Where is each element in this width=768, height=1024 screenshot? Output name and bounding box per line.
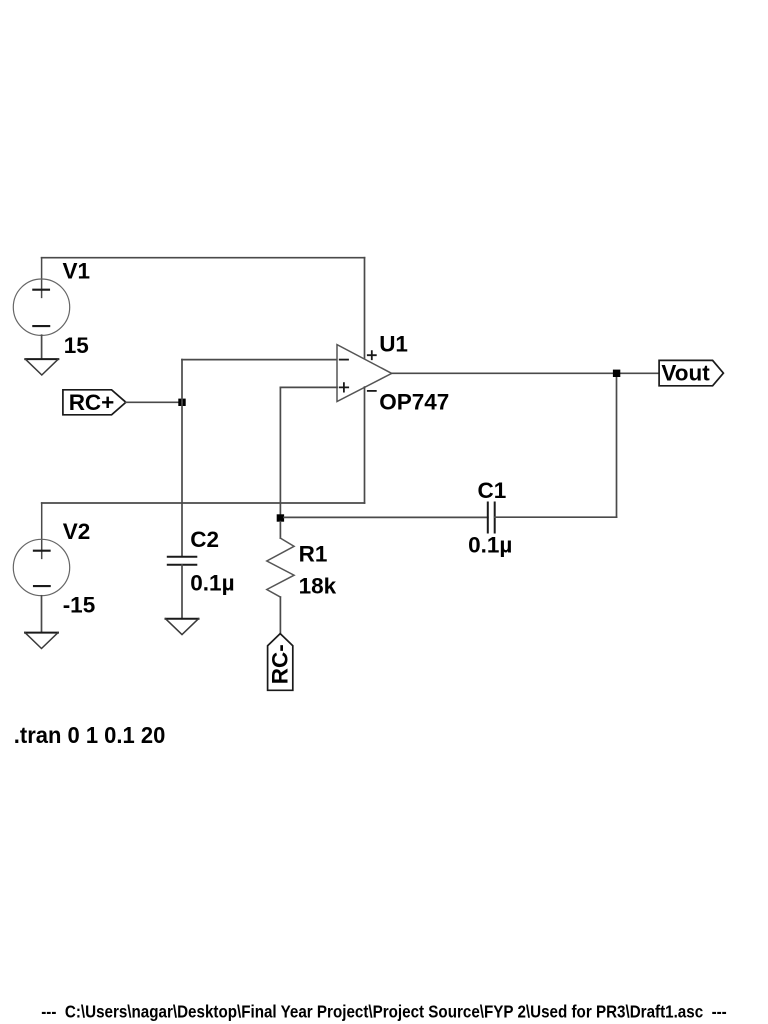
- wire node A up: [181, 360, 183, 403]
- wire V2 plus lead: [41, 503, 43, 558]
- svg-text:0.1µ: 0.1µ: [190, 570, 234, 595]
- svg-text:V1: V1: [63, 258, 91, 283]
- wire op-amp V- drop: [364, 387, 366, 503]
- svg-text:OP747: OP747: [379, 390, 449, 415]
- capacitor C1: [488, 503, 495, 533]
- V2 plus sign: [34, 550, 50, 552]
- svg-text:-15: -15: [63, 593, 96, 618]
- flag Vout: [659, 360, 723, 385]
- node A junction: [178, 399, 185, 406]
- ground below C2: [166, 618, 199, 620]
- svg-text:V2: V2: [63, 519, 91, 544]
- wire C2 to ground: [181, 565, 183, 619]
- wire op-amp V+ drop: [364, 258, 366, 359]
- capacitor C2: [168, 557, 197, 565]
- svg-text:--- C:\Users\nagar\Desktop\Fi: --- C:\Users\nagar\Desktop\Final Year Pr…: [41, 1001, 727, 1021]
- wire RC+ to node A: [126, 401, 182, 403]
- svg-text:RC-: RC-: [268, 644, 293, 684]
- flag RC-: [268, 634, 293, 691]
- ground below V1: [25, 358, 58, 360]
- V2 minus sign: [34, 585, 50, 587]
- svg-text:Vout: Vout: [661, 361, 710, 386]
- wire V1 plus lead: [41, 258, 43, 298]
- flag RC+: [63, 390, 126, 415]
- ground below V2: [25, 632, 58, 634]
- wire plus input down to node B: [279, 387, 281, 518]
- op-amp V- pin marker: [368, 390, 376, 392]
- wire node B down to R1: [279, 522, 281, 539]
- svg-text:U1: U1: [379, 331, 408, 356]
- V1 minus sign: [33, 325, 49, 327]
- svg-text:RC+: RC+: [69, 390, 115, 415]
- op-amp non-inverting input marker: [340, 383, 349, 391]
- svg-text:0.1µ: 0.1µ: [468, 532, 512, 557]
- voltage source V2: [13, 539, 69, 595]
- node B junction: [277, 514, 284, 521]
- svg-text:18k: 18k: [299, 574, 337, 599]
- resistor R1 zigzag: [267, 538, 294, 597]
- svg-text:C2: C2: [190, 527, 219, 552]
- wire output node down: [616, 373, 618, 517]
- wire op-amp output: [392, 372, 659, 374]
- wire C1 to output node: [495, 516, 617, 518]
- svg-text:C1: C1: [478, 478, 507, 503]
- op-amp inverting input marker: [340, 359, 348, 361]
- wire to op-amp inverting input: [182, 359, 337, 361]
- wire V1 minus lead: [41, 335, 43, 359]
- node C junction: [613, 370, 620, 377]
- V1 plus sign: [33, 289, 49, 291]
- wire V2 minus lead: [41, 596, 43, 633]
- wire node A down to C2: [181, 402, 183, 556]
- wire op-amp plus input: [280, 386, 337, 388]
- wire node B to C1: [284, 516, 488, 518]
- svg-text:.tran 0 1 0.1 20: .tran 0 1 0.1 20: [14, 722, 166, 748]
- op-amp U1 triangle: [337, 345, 392, 402]
- op-amp V+ pin marker: [368, 351, 376, 359]
- svg-text:R1: R1: [299, 542, 328, 567]
- wire R1 to RC- flag: [279, 597, 281, 634]
- voltage source V1: [13, 279, 69, 335]
- svg-text:15: 15: [64, 333, 89, 358]
- wire V1 top to op-amp V+: [42, 257, 365, 259]
- wire V2 top: [42, 502, 365, 504]
